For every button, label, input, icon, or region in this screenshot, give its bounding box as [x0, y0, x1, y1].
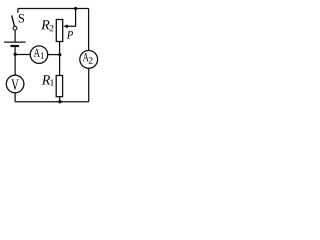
battery: [4, 42, 26, 46]
wire top: [18, 8, 89, 10]
label R1: [42, 75, 54, 85]
rheostat R2 box: [56, 20, 62, 42]
node junction left: [14, 53, 17, 56]
wire to A1: [15, 54, 30, 56]
label R2: [41, 20, 53, 31]
switch S: [12, 9, 24, 31]
wire bottom: [15, 101, 89, 103]
wire battery-to-V: [14, 47, 16, 75]
voltmeter V: [6, 75, 24, 93]
slider wiper arrow P: [63, 9, 75, 39]
wire switch-to-battery: [14, 30, 16, 41]
wire R2-to-R1: [59, 42, 61, 76]
wire A2-to-bottom: [88, 68, 90, 102]
wire R1-to-bottom: [59, 97, 61, 102]
node junction middle: [58, 53, 61, 56]
ammeter A2: [80, 51, 98, 69]
ammeter A1: [30, 46, 48, 64]
node bottom: [58, 100, 61, 103]
wire right: [88, 9, 90, 51]
resistor R1 box: [56, 76, 62, 97]
wire V-to-bottom: [14, 93, 16, 102]
wire A1-to-middle: [48, 54, 60, 56]
node on top wire: [74, 7, 77, 10]
